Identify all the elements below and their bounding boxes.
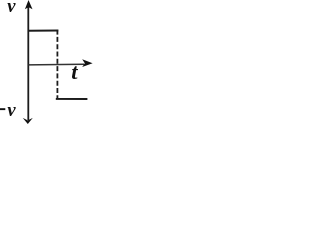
waveform diagram: square wave v(t) xyxy=(0,0,104,124)
svg-text:v: v xyxy=(7,101,16,121)
waveform high level line xyxy=(28,30,58,32)
waveform transition (dashed vertical) xyxy=(56,31,58,99)
label minus of -v (bottom left) xyxy=(0,108,5,110)
svg-text:v: v xyxy=(7,0,16,17)
svg-text:t: t xyxy=(71,59,78,84)
t axis right arrowhead xyxy=(82,59,92,67)
v axis bottom arrowhead xyxy=(23,118,33,124)
waveform low level line xyxy=(56,98,88,100)
v axis top arrowhead xyxy=(25,0,33,9)
t axis (horizontal) xyxy=(28,63,84,66)
v axis (vertical) xyxy=(27,4,29,120)
